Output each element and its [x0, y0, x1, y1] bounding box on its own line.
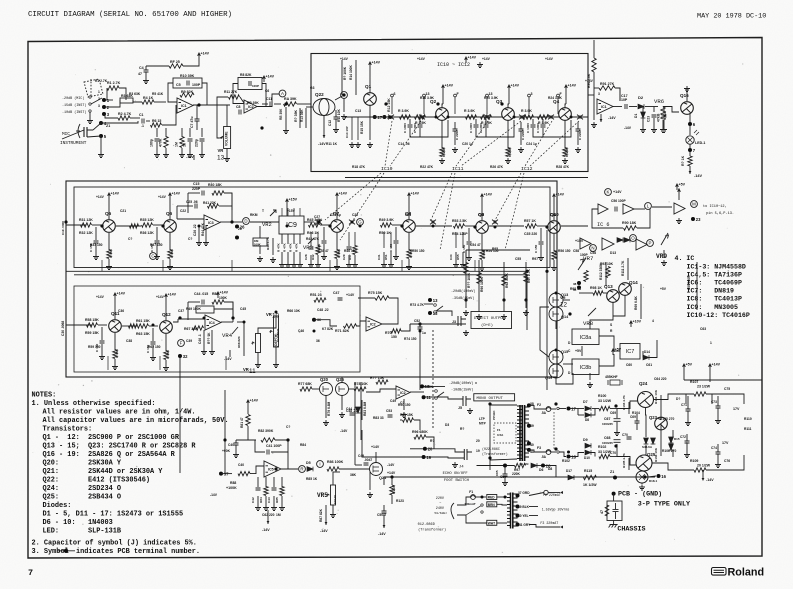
resistor RKM 100K box [253, 238, 267, 246]
svg-text:C 1000: C 1000 [526, 123, 530, 133]
wire [183, 59, 199, 66]
svg-text:19: 19 [476, 449, 480, 453]
resistor R97 220K [515, 463, 526, 467]
svg-text:+100K: +100K [226, 486, 237, 490]
capacitor C68 1000/35 [614, 440, 621, 443]
node M [691, 201, 698, 208]
op-amp IC1b [597, 99, 613, 114]
node L [645, 203, 652, 210]
wire [525, 300, 527, 308]
capacitor (Q10 in) [539, 242, 544, 244]
wire [273, 477, 275, 487]
svg-text:R 3.9K: R 3.9K [464, 109, 475, 113]
resistor R71 82K [344, 324, 357, 328]
wire [250, 221, 279, 223]
svg-text:R10 39K: R10 39K [180, 74, 195, 78]
resistor R84 1M [264, 487, 268, 496]
svg-text:R?: R? [430, 439, 434, 443]
wire [478, 305, 480, 312]
wire [101, 344, 103, 354]
transistor Q5 [103, 220, 116, 233]
svg-text:G3: G3 [310, 86, 315, 90]
svg-text:+14V: +14V [484, 193, 493, 197]
svg-text:3: 3 [98, 104, 100, 108]
transistor Q20 [320, 383, 333, 396]
wire [188, 301, 200, 303]
wire [198, 226, 200, 240]
wire [540, 228, 542, 241]
fuse F2 out [546, 407, 551, 412]
svg-text:Q24: 2SD234 O: Q24: 2SD234 O [43, 485, 122, 493]
svg-text:-14V: -14V [318, 142, 326, 146]
wire [92, 224, 101, 226]
svg-text:Roland: Roland [728, 567, 765, 579]
IC9 pin wire 2 [287, 234, 289, 244]
wire [610, 456, 617, 458]
power rail +14V [408, 193, 411, 199]
power rail +5V [683, 364, 686, 370]
svg-text:R 3.9K: R 3.9K [521, 109, 532, 113]
resistor R7 470K [164, 137, 168, 148]
wire [357, 117, 359, 140]
wire [424, 303, 433, 305]
wire [408, 199, 410, 219]
capacitor (Q8 in) [394, 241, 399, 243]
wire [361, 400, 363, 420]
capacitor C70 10 [627, 437, 632, 439]
svg-text:INSTRUMENT: INSTRUMENT [60, 141, 87, 146]
svg-text:R67 22K: R67 22K [184, 327, 198, 331]
wire [485, 134, 487, 137]
dashed diagonal IC12 [494, 173, 521, 222]
ground [676, 218, 682, 224]
ground [639, 485, 645, 491]
ground [661, 260, 667, 266]
wire [177, 205, 193, 207]
switch contact IC12 [548, 115, 554, 120]
wire [652, 206, 672, 208]
svg-text:+14V: +14V [482, 57, 491, 61]
svg-text:R103 4.7K: R103 4.7K [622, 394, 626, 410]
svg-text:D9: D9 [583, 438, 588, 442]
wire [232, 302, 234, 322]
resistor (Q12 emitter) [164, 351, 168, 360]
transistor Q9 [476, 221, 489, 234]
svg-text:IC5: IC5 [268, 468, 274, 472]
PCB terminal symbol in note 3 [57, 549, 75, 553]
pot VR6 4.7KB [661, 107, 665, 119]
svg-text:+5V: +5V [660, 287, 667, 291]
svg-text:R26 47K: R26 47K [490, 165, 504, 169]
bands 2-3 outer PCB outline [66, 181, 557, 377]
resistor R70 150 [391, 329, 401, 333]
svg-text:R20 3.9K: R20 3.9K [484, 96, 499, 100]
svg-text:IC2: IC2 [400, 391, 406, 395]
ground [367, 142, 373, 148]
wire [426, 437, 434, 449]
svg-text:240V: 240V [436, 507, 445, 511]
inter-band wire [354, 382, 356, 465]
vertical feed wire [224, 390, 226, 474]
inverter IC6d [580, 238, 591, 249]
ground [660, 127, 666, 133]
wire [93, 123, 101, 130]
switch contact IC11 [519, 115, 525, 120]
wire [391, 495, 393, 504]
ground [209, 349, 215, 355]
svg-text:+14V: +14V [220, 291, 229, 295]
svg-text:R93 10K: R93 10K [600, 262, 614, 266]
wire [354, 232, 356, 246]
diode D14 [643, 355, 649, 360]
svg-text:47KB: 47KB [657, 113, 661, 122]
chain wire seg2 [448, 116, 502, 118]
svg-text:C31: C31 [377, 254, 381, 260]
wire [146, 120, 150, 122]
svg-text:C1: C1 [139, 113, 144, 117]
svg-text:-14V: -14V [320, 529, 328, 533]
ganged switch dashed link [553, 412, 555, 449]
wire [320, 224, 329, 226]
resistor R35 12K [142, 223, 153, 227]
svg-text:R14 100K: R14 100K [349, 65, 353, 80]
wire [341, 60, 343, 95]
resistor R?? 22K [193, 326, 204, 330]
sub-loop wire Q4 [533, 120, 571, 137]
dual FET pair upper (Q17/Q18) [549, 293, 563, 321]
svg-text:R91 15K: R91 15K [400, 413, 414, 417]
wire [683, 370, 685, 380]
svg-text:R?: R? [460, 427, 464, 431]
power rail +15V [286, 199, 289, 205]
svg-text:Q22: Q22 [315, 92, 324, 97]
svg-text:IC10-12: TC4016P: IC10-12: TC4016P [687, 312, 750, 319]
svg-text:C40: C40 [228, 443, 234, 447]
svg-text:PCB - (GND): PCB - (GND) [618, 491, 662, 499]
wire [653, 107, 655, 113]
transformer T1 coils [507, 493, 518, 529]
wire [274, 103, 281, 105]
ground [143, 78, 149, 84]
svg-text:C69: C69 [630, 415, 636, 419]
wire [551, 408, 556, 410]
svg-text:1M: 1M [276, 513, 281, 517]
capacitor C40 1u [234, 443, 239, 445]
wire [217, 97, 228, 138]
capacitor C9 220p [200, 139, 205, 141]
junction [545, 225, 548, 228]
wire [310, 255, 312, 262]
svg-text:R47: R47 [348, 254, 352, 260]
svg-text:R12 15K: R12 15K [387, 98, 391, 112]
wire [426, 449, 464, 452]
svg-text:R44 47K: R44 47K [201, 222, 205, 236]
svg-text:+5V: +5V [686, 363, 693, 367]
wire [351, 117, 353, 140]
svg-text:R35 12K: R35 12K [140, 218, 154, 222]
wire [323, 116, 325, 138]
ground [308, 262, 314, 268]
signal bus upper [66, 270, 527, 272]
svg-text:VR: VR [218, 148, 224, 153]
wire [645, 106, 658, 108]
wire [649, 340, 657, 358]
svg-text:R73 4.7K: R73 4.7K [410, 303, 425, 307]
wire [672, 430, 674, 437]
svg-text:R59 150: R59 150 [88, 345, 101, 349]
node N [590, 245, 597, 252]
capacitor C52 1u [418, 327, 423, 329]
svg-text:+14V: +14V [417, 57, 426, 61]
resistor R90 18K [624, 226, 637, 230]
wire [156, 142, 158, 152]
wire [478, 260, 480, 305]
svg-text:-20dB(100mV): -20dB(100mV) [449, 381, 473, 386]
svg-text:+14V: +14V [371, 445, 380, 449]
svg-text:C53: C53 [386, 409, 392, 413]
ground [257, 256, 263, 262]
wire [537, 225, 546, 227]
svg-text:.5A: .5A [541, 411, 547, 415]
wire [613, 296, 625, 317]
wire [193, 155, 195, 160]
svg-text:R8 82K: R8 82K [240, 73, 252, 77]
svg-text:R49 100K: R49 100K [186, 307, 201, 311]
ground [393, 254, 399, 260]
power rail +14V [442, 85, 445, 91]
capacitor C15 220P [202, 191, 204, 196]
ground [106, 264, 112, 270]
svg-text:D18-1: D18-1 [649, 479, 658, 483]
svg-text:D2: D2 [638, 95, 644, 100]
wire [613, 494, 615, 501]
wire [286, 205, 288, 216]
PCB terminal 27 [373, 115, 377, 119]
resistor R102 33 1/2W [599, 454, 610, 458]
svg-text:VOLUME: VOLUME [224, 131, 228, 146]
junction [554, 447, 557, 450]
svg-text:R4 1K: R4 1K [143, 96, 154, 100]
svg-text:-14V: -14V [340, 429, 348, 433]
PCB terminal 2 [102, 105, 106, 109]
svg-text:R74 150: R74 150 [404, 337, 417, 341]
wire [454, 131, 456, 145]
MONO OUTPUT box [474, 394, 515, 401]
svg-text:470K: 470K [159, 138, 163, 147]
fuse F3 out [546, 450, 551, 455]
stage-to-bus wire [546, 260, 548, 271]
svg-text:C70: C70 [610, 451, 616, 455]
svg-text:PP41K: PP41K [492, 410, 496, 420]
ground [463, 330, 469, 336]
svg-text:IC2: IC2 [370, 323, 376, 327]
resistor (Q4 base) [523, 115, 534, 119]
resistor R2 4.7K [118, 116, 130, 120]
capacitor C5 100P [187, 81, 189, 86]
transistor Q22 (E412) [313, 99, 335, 116]
svg-text:LED: SLP-131B: LED: SLP-131B [43, 528, 122, 536]
junction [513, 116, 516, 119]
wire [375, 452, 377, 463]
svg-text:R62 150: R62 150 [148, 345, 161, 349]
junction [318, 221, 321, 224]
power rail +14V [247, 400, 250, 406]
inter-band wire 2 [360, 382, 362, 440]
junction [473, 225, 476, 228]
wire [390, 252, 392, 262]
svg-text:(022-086C: (022-086C [482, 447, 500, 451]
PCB terminal 3 [102, 112, 106, 116]
ground [562, 158, 568, 164]
ground [163, 152, 169, 158]
wire [419, 340, 421, 390]
ground [587, 382, 593, 388]
wire [332, 472, 334, 485]
svg-text:+10V: +10V [633, 320, 642, 324]
IC9 pin wire 3 [293, 234, 295, 244]
svg-text:R 15K: R 15K [565, 147, 569, 157]
pin stub 13 [486, 94, 489, 114]
ground [93, 254, 99, 260]
clock section top wire [466, 249, 530, 251]
+14V rail (input buffer) [263, 76, 266, 82]
resistor R99 330K [584, 271, 588, 282]
svg-text:C 220P: C 220P [455, 130, 459, 140]
wire [696, 262, 698, 310]
svg-text:C14 .06: C14 .06 [398, 142, 410, 146]
svg-text:R6 15: R6 15 [152, 119, 161, 123]
junction [527, 424, 531, 428]
junction [570, 116, 573, 119]
svg-text:+5V: +5V [615, 348, 622, 352]
junction [555, 349, 558, 352]
svg-text:IC4: IC4 [209, 321, 215, 325]
wire [114, 333, 116, 350]
svg-text:37 GRD: 37 GRD [518, 491, 530, 495]
transistor Q25 [636, 455, 652, 471]
wire [476, 496, 487, 498]
svg-text:C48 .22: C48 .22 [317, 308, 329, 312]
wire [565, 104, 566, 108]
svg-text:.1: .1 [141, 124, 144, 128]
svg-text:C13 10P: C13 10P [345, 126, 349, 138]
dashed diagonal IC12b [505, 173, 524, 250]
svg-text:C4: C4 [139, 66, 144, 70]
svg-text:(DEPTH): (DEPTH) [274, 334, 278, 347]
ground [255, 362, 261, 368]
wire [615, 503, 617, 510]
wire [189, 142, 191, 152]
PCB terminal 11 [422, 395, 426, 399]
wire [95, 227, 97, 240]
ground [341, 114, 347, 120]
svg-text:+14V: +14V [556, 193, 565, 197]
resistor (Q3 base 2) [481, 115, 492, 119]
wire [76, 324, 92, 326]
svg-text:R68 82K: R68 82K [237, 335, 241, 348]
svg-text:455KHF: 455KHF [605, 375, 618, 379]
svg-text:4. IC: 4. IC [675, 255, 695, 262]
svg-text:R 47K: R 47K [283, 242, 287, 252]
svg-text:3: 3 [598, 92, 600, 96]
svg-text:39 BLK: 39 BLK [518, 505, 530, 509]
svg-text:+14V: +14V [168, 293, 177, 297]
svg-text:R91 27K: R91 27K [600, 82, 615, 86]
svg-text:160p: 160p [150, 139, 154, 147]
VR8 trimmer arrow [588, 308, 596, 316]
wire [310, 232, 312, 246]
wire [87, 136, 101, 137]
resistor (Q3 base) [466, 115, 477, 119]
ground [439, 158, 445, 164]
svg-text:N: N [591, 246, 594, 251]
svg-text:47: 47 [138, 72, 142, 76]
wire [299, 108, 301, 128]
svg-text:(Transformer): (Transformer) [482, 452, 508, 456]
svg-text:R88: R88 [230, 481, 236, 485]
svg-text:(Transformer): (Transformer) [418, 528, 446, 533]
jack J3 [458, 316, 466, 326]
chain wire Q5-Q6 [116, 225, 141, 227]
svg-text:+14V: +14V [613, 190, 622, 194]
bus to terminal 16 [384, 476, 655, 478]
PCB terminal 5 [99, 134, 103, 138]
wire [520, 122, 522, 129]
ground [401, 412, 407, 418]
capacitor C44 .015 [202, 300, 204, 305]
svg-text:~: ~ [439, 502, 441, 506]
capacitor (Q2 lpf 2) [418, 125, 423, 127]
ground [538, 255, 544, 261]
switch T5 [557, 407, 559, 409]
svg-text:C21: C21 [120, 209, 126, 213]
svg-text:12: 12 [560, 302, 567, 309]
capacitor C2 160p [155, 139, 160, 141]
wire [556, 373, 573, 384]
svg-text:C 1000: C 1000 [536, 123, 540, 133]
svg-text:R32 12K: R32 12K [79, 231, 93, 235]
wire [108, 199, 110, 219]
wire [689, 166, 691, 174]
wire [250, 466, 264, 474]
wire [542, 134, 544, 137]
svg-text:pin 5,6,P-13.: pin 5,6,P-13. [706, 211, 734, 216]
switch contact band2 [316, 220, 322, 225]
IC9 top pin [287, 208, 289, 216]
junction [203, 317, 206, 320]
svg-text:-14V: -14V [224, 357, 232, 361]
IC9 pin wire 1 [281, 234, 283, 244]
wire [603, 292, 607, 294]
+14V rail (top box) [465, 57, 468, 63]
ground [271, 505, 277, 511]
svg-text:IC10 ~ IC12: IC10 ~ IC12 [437, 62, 470, 68]
wire [645, 408, 648, 438]
ground [501, 314, 507, 320]
svg-text:D6: D6 [539, 468, 543, 472]
PCB terminal 32 [178, 354, 182, 358]
wire [119, 88, 126, 100]
svg-text:11: 11 [249, 368, 256, 375]
IC9 top pin [281, 208, 283, 216]
wire [304, 221, 314, 223]
svg-text:R: R [300, 467, 303, 472]
wire [507, 120, 509, 148]
svg-text:C24 1µ: C24 1µ [526, 142, 537, 146]
capacitor C5 feedback box [173, 78, 202, 88]
wire [101, 121, 138, 123]
switch contact band2 [430, 220, 436, 225]
